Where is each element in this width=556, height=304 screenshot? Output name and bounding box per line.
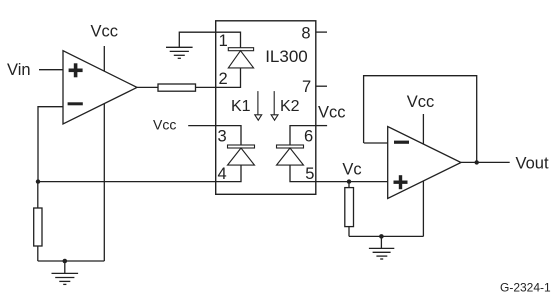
optocoupler IL300 body [216, 21, 316, 195]
svg-text:K1: K1 [231, 98, 251, 115]
wire A1 negative supply down to ground rail [103, 104, 105, 261]
wire bottom ground rail (output side) [349, 235, 423, 237]
ground (output side) [369, 236, 394, 259]
wire Vcc stub to A2 positive supply [422, 114, 424, 144]
wire R2 to IL300 pin 2 [196, 86, 216, 88]
op-amp A2 [388, 127, 461, 199]
photodiode D2 (IL300 pins 3-4) [216, 126, 255, 182]
wire A2 output to Vout [461, 161, 510, 163]
LED D1 (IL300 pins 1-2) [216, 32, 254, 87]
svg-text:K2: K2 [280, 98, 300, 115]
node ground tap (input side) [63, 259, 68, 264]
wire feedback node to IL300 pin 4 [38, 181, 216, 183]
wire A1 inverting input to feedback node [38, 107, 63, 182]
svg-text:G-2324-1: G-2324-1 [500, 281, 551, 295]
node feedback junction [36, 179, 40, 183]
svg-text:6: 6 [304, 127, 313, 145]
node Vc [347, 179, 351, 183]
pin 8 stub [316, 31, 327, 33]
svg-text:1: 1 [219, 32, 228, 50]
pin 6 stub [316, 125, 327, 127]
node A2 output [475, 160, 479, 164]
ground (IL300 pin 1) [166, 47, 193, 58]
wire A2 inverting input [364, 142, 388, 144]
wire Vcc to IL300 pin 3 [188, 125, 216, 127]
resistor R1 [34, 182, 42, 261]
svg-text:Vc: Vc [342, 160, 361, 178]
resistor R2 [158, 84, 196, 91]
svg-text:Vout: Vout [516, 155, 549, 173]
node ground tap (output side) [379, 234, 384, 239]
op-amp A1 [63, 51, 137, 124]
wire A2 negative supply down to ground rail [422, 181, 424, 236]
svg-text:8: 8 [301, 24, 310, 42]
svg-text:Vcc: Vcc [318, 104, 346, 122]
wire Vcc stub to A1 positive supply [103, 46, 105, 71]
svg-text:Vcc: Vcc [153, 117, 176, 133]
svg-text:3: 3 [218, 127, 227, 145]
svg-text:Vin: Vin [7, 61, 31, 79]
photodiode D3 (IL300 pins 6-5) [277, 126, 316, 182]
svg-text:5: 5 [305, 165, 314, 183]
pin 7 stub [316, 85, 327, 87]
svg-text:Vcc: Vcc [91, 22, 119, 40]
wire IL300 pin 1 to ground [179, 32, 215, 47]
svg-text:IL300: IL300 [265, 47, 308, 66]
wire A1 output to resistor R2 [137, 86, 158, 88]
arrow K2 coupling [271, 91, 278, 120]
resistor R3 [345, 182, 354, 237]
wire bottom ground rail (input side) [38, 260, 105, 262]
wire feedback loop A2 output to inverting input [364, 76, 477, 163]
svg-text:7: 7 [302, 78, 311, 96]
arrow K1 coupling [255, 91, 262, 120]
wire IL300 pin 5 to A2 non-inverting input [316, 181, 388, 183]
svg-text:4: 4 [218, 165, 227, 183]
ground (input side) [52, 261, 79, 284]
svg-text:Vcc: Vcc [407, 93, 435, 111]
svg-text:2: 2 [219, 70, 228, 88]
wire Vin to op-amp A1 non-inverting input [39, 69, 63, 71]
